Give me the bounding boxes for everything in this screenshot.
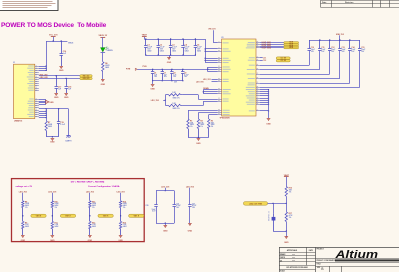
svg-text:RED_LED: RED_LED: [40, 74, 49, 76]
svg-text:CC2_SW: CC2_SW: [280, 60, 286, 62]
svg-text:Current Configuration 1.5A/3A: Current Configuration 1.5A/3A: [88, 185, 120, 188]
port LOAD_OUT_PWM oval: [243, 202, 267, 206]
wire R2 output to U1: [183, 101, 218, 105]
wire shield bottom rail: [46, 136, 58, 137]
text current configuration: [88, 185, 120, 188]
svg-text:GND: GND: [54, 97, 59, 99]
net label LDO_5V0 at U1: [196, 81, 218, 83]
svg-text:GND: GND: [167, 62, 172, 64]
svg-text:1%: 1%: [289, 191, 292, 193]
capacitor C7: [161, 69, 168, 82]
net label LDO_3V3 divider 4: [117, 191, 125, 201]
ground divider 3: [88, 236, 93, 242]
capacitor C12: [328, 39, 335, 52]
resistor R7: [45, 121, 53, 137]
net label VIN_3V3 wire to U1: [208, 29, 217, 43]
wire shield top rail: [46, 108, 68, 109]
resistor R9 (RDOWN): [22, 221, 30, 235]
svg-text:SIZE: SIZE: [317, 267, 320, 269]
svg-text:VSET_R: VSET_R: [134, 216, 139, 218]
wire shield pins of J1: [39, 108, 47, 121]
ground below C18: [64, 94, 69, 99]
net label LDO_3V3 divider 1: [19, 191, 27, 201]
wire VCC rail: [46, 40, 74, 44]
svg-text:SMD 1%: SMD 1%: [173, 108, 180, 110]
ground below C17: [54, 94, 59, 99]
wire VBAT top rail: [144, 39, 205, 41]
resistor R1: [165, 92, 182, 99]
ground below pulldowns: [196, 139, 201, 145]
resistor R13 (RDOWN): [89, 221, 97, 235]
capacitor C5: [194, 38, 203, 55]
title block approvals texts: [280, 249, 313, 272]
port divider oval 2: [60, 214, 75, 217]
net label LDO_3V3 divider 3: [86, 191, 94, 201]
svg-text:VCC_3V3: VCC_3V3: [49, 35, 57, 37]
resistor R3: [187, 119, 194, 138]
svg-text:J1: J1: [13, 62, 15, 64]
svg-text:B: B: [321, 267, 323, 271]
capacitor C21: [173, 203, 181, 209]
svg-text:LDO_3V3: LDO_3V3: [203, 79, 211, 81]
port divider oval 3: [98, 214, 113, 217]
ground below C22: [188, 224, 193, 233]
svg-text:APPROVALS: APPROVALS: [287, 249, 298, 252]
ground divider 4: [118, 236, 123, 242]
capacitor C17: [55, 76, 62, 93]
svg-text:0402: 0402: [160, 49, 164, 52]
svg-text:0402: 0402: [48, 125, 52, 128]
wire GND pins of J1: [39, 99, 46, 104]
ground below load circuit: [284, 231, 289, 244]
IC U1 body: [220, 37, 257, 119]
net label DRAIN wires at U1: [203, 87, 218, 94]
net label LDO_5V0 cap: [186, 186, 194, 223]
ground below output caps: [163, 223, 168, 233]
svg-text:VBUS: VBUS: [68, 43, 74, 45]
svg-text:GND: GND: [49, 102, 54, 104]
net label LDO_3V3 wire: [151, 95, 166, 106]
wire and port HDCM4: [260, 42, 299, 45]
transistor Q1: [268, 203, 275, 231]
capacitor C13: [338, 39, 345, 52]
red annotation rectangle: [12, 179, 145, 242]
resistor R4 wire to U1: [198, 113, 217, 120]
capacitor C6: [151, 69, 158, 82]
svg-text:VBAT: VBAT: [142, 34, 148, 37]
capacitor C9: [181, 69, 189, 82]
LED D1: [101, 47, 114, 62]
Altium logo: [334, 249, 378, 261]
svg-text:0402: 0402: [147, 49, 151, 52]
svg-text:MOSFET_N: MOSFET_N: [268, 211, 270, 221]
revision table (top-right, clipped): [321, 0, 399, 7]
title block address bar: [317, 259, 399, 262]
svg-text:GRN_LED: GRN_LED: [40, 77, 49, 79]
IC U1 right pins: [246, 41, 260, 111]
ground divider 2: [50, 236, 55, 242]
power VCC_3V3 bar: [49, 35, 57, 41]
capacitor C1: [144, 38, 153, 55]
svg-text:VSET_R: VSET_R: [36, 216, 41, 218]
svg-text:USB4715: USB4715: [14, 119, 22, 122]
svg-text:1%: 1%: [289, 217, 292, 219]
title block grid: [279, 247, 399, 272]
svg-text:GND: GND: [21, 240, 26, 242]
svg-text:VBAT: VBAT: [284, 174, 290, 177]
wire and port HDCM2: [260, 45, 299, 48]
ground below D1 column: [101, 80, 106, 86]
svg-text:CHECK: CHECK: [280, 257, 285, 259]
power USB_3V3 label: [336, 34, 344, 40]
connector J1 body: [13, 62, 35, 122]
port divider oval 4: [129, 214, 144, 217]
svg-text:EARTH: EARTH: [65, 140, 72, 143]
resistor R15 (RDOWN): [119, 221, 127, 235]
capacitor C20: [145, 205, 157, 213]
capacitor C19: [57, 109, 66, 137]
ground below cap bank: [167, 55, 172, 64]
wire VBAT bottom rail: [146, 55, 196, 57]
resistor R3 wire to U1: [188, 110, 218, 119]
svg-text:HDCM: HDCM: [289, 47, 293, 49]
svg-text:VSET_R: VSET_R: [103, 216, 108, 218]
text voltage set: [16, 185, 33, 188]
earth ground: [65, 109, 72, 143]
port CC2 oval: [260, 60, 290, 63]
svg-text:GND: GND: [101, 84, 106, 86]
resistor R4: [197, 119, 204, 138]
svg-text:U1: U1: [221, 37, 223, 39]
resistor R5: [208, 119, 215, 138]
svg-text:SMD 1%: SMD 1%: [173, 97, 180, 99]
ground below shield RC: [50, 139, 55, 144]
title block title row: [317, 264, 324, 272]
resistor R12 (RUP): [89, 201, 97, 222]
capacitor C4: [181, 38, 190, 55]
svg-text:0402: 0402: [25, 225, 29, 228]
svg-text:TPS65987D: TPS65987D: [220, 118, 231, 120]
svg-text:Revision: Revision: [345, 2, 354, 4]
wire LOAD_OUT_PWM: [268, 203, 287, 204]
ground below PVIN caps: [150, 81, 155, 91]
wire rail to U1 VBUS pins: [205, 39, 218, 63]
wire RED_LED net: [39, 74, 80, 76]
svg-text:POWER TO MOS Device To Mobile: POWER TO MOS Device To Mobile: [1, 22, 107, 29]
wire PVIN bottom rail: [153, 81, 183, 84]
svg-text:PROJECT:: PROJECT:: [317, 249, 325, 251]
svg-text:GND: GND: [163, 231, 168, 233]
svg-text:VOUT_SW4: VOUT_SW4: [262, 47, 271, 50]
svg-text:GND: GND: [50, 142, 55, 144]
svg-text:0402: 0402: [185, 49, 189, 52]
svg-text:GND: GND: [64, 97, 69, 99]
svg-text:0402: 0402: [105, 66, 109, 69]
resistor R10 (RUP): [51, 201, 59, 222]
svg-text:TITLE: TITLE: [317, 264, 321, 266]
capacitor C14: [348, 39, 355, 52]
capacitor C3: [169, 38, 178, 55]
svg-text:GND: GND: [150, 89, 155, 91]
capacitor C2: [157, 38, 166, 55]
svg-text:0402: 0402: [55, 225, 59, 228]
svg-text:VBUS_5V: VBUS_5V: [98, 35, 107, 37]
wire and port HDCM1: [260, 47, 299, 50]
svg-text:Altium: Altium: [334, 249, 378, 261]
capacitor C22: [188, 203, 196, 209]
svg-text:LDO_5V0: LDO_5V0: [196, 81, 204, 83]
svg-text:0402: 0402: [123, 225, 127, 228]
svg-text:GND: GND: [88, 240, 93, 242]
capacitor C18: [65, 78, 72, 93]
wire pulldown bottom rail: [188, 137, 209, 138]
wire GREEN_LED net: [39, 77, 80, 79]
resistor R17: [285, 203, 293, 231]
net label LDO_3V3 at U1: [203, 79, 218, 81]
ground divider 1: [21, 236, 26, 242]
power VBAT bar: [142, 34, 148, 39]
wire and port HDCM3: [260, 43, 299, 46]
svg-text:LDO_3V3: LDO_3V3: [151, 100, 159, 102]
capacitor C8: [170, 69, 177, 82]
wire U1 to C13: [260, 51, 340, 78]
resistor R8 (RUP): [22, 201, 30, 222]
resistor R11 (RDOWN): [51, 221, 59, 235]
svg-text:0402: 0402: [172, 49, 176, 52]
svg-text:VIN_3V3: VIN_3V3: [208, 29, 215, 31]
wire U1 to C10: [260, 51, 310, 65]
disclaimer text box (top-left, clipped): [0, 0, 58, 11]
title block project texts: [317, 249, 325, 251]
svg-text:0402: 0402: [92, 225, 96, 228]
resistor R5 wire to U1: [209, 115, 218, 120]
svg-text:GND: GND: [118, 240, 123, 242]
svg-text:GREEN: GREEN: [107, 50, 114, 52]
connector J1 pins: [27, 66, 39, 118]
wire VDD pins to rail: [39, 41, 47, 71]
wire U1 to C15: [260, 51, 360, 87]
svg-text:GND: GND: [266, 123, 271, 125]
wire U1 to C11: [260, 51, 320, 69]
svg-text:GND: GND: [284, 242, 289, 244]
capacitor C15: [358, 40, 365, 53]
wire right bank rail: [309, 40, 360, 42]
svg-text:DIV = RDOWN / (RUP + RDOWN): DIV = RDOWN / (RUP + RDOWN): [71, 181, 105, 183]
port divider oval 1: [31, 214, 46, 217]
resistor R14 (RUP): [119, 200, 127, 221]
wire U1 GND bus: [260, 89, 269, 118]
ground below U1 bus: [266, 119, 271, 126]
IC U1 left pins: [218, 42, 231, 115]
net label PVIN wire: [126, 66, 208, 71]
net label LDO_3V3 output caps: [161, 186, 169, 191]
svg-text:GND: GND: [59, 70, 64, 72]
svg-text:0402: 0402: [197, 49, 201, 52]
wire PVIN pins of U1: [207, 67, 217, 72]
svg-text:C20: C20: [145, 205, 148, 207]
wire U1 to C12: [260, 51, 330, 74]
resistor R16: [285, 187, 292, 204]
capacitor C11: [318, 39, 325, 52]
power VBAT bar at load: [284, 174, 290, 187]
schematic title text: [1, 22, 107, 29]
ground below C16: [59, 67, 64, 73]
wire U1 to C14: [260, 51, 350, 83]
svg-text:voltage set = 3V: voltage set = 3V: [16, 185, 33, 188]
capacitor C10: [308, 40, 315, 53]
resistor R6: [102, 62, 111, 79]
formula text DIV: [71, 181, 105, 183]
wire R1 output to U1: [183, 95, 218, 100]
capacitor C16: [60, 41, 67, 66]
svg-text:GND: GND: [196, 143, 201, 145]
power VBUS_5V bar: [98, 35, 107, 48]
resistor R2: [165, 103, 182, 110]
svg-text:CC2: CC2: [263, 60, 266, 62]
svg-text:GND: GND: [188, 231, 193, 233]
port GREEN_LED oval: [80, 77, 92, 79]
svg-text:VSET_R: VSET_R: [65, 216, 70, 218]
port CC1 oval: [260, 57, 290, 60]
port RED_LED oval: [80, 75, 92, 77]
svg-text:GND: GND: [50, 240, 55, 242]
wire output cap loop: [156, 191, 175, 224]
power GND arrow: [46, 100, 54, 104]
svg-text:PVIN: PVIN: [126, 69, 131, 71]
svg-text:GRN_LED: GRN_LED: [83, 78, 90, 80]
wire load bottom rail: [273, 231, 287, 232]
net label LDO_3V3 divider 2: [48, 191, 56, 201]
